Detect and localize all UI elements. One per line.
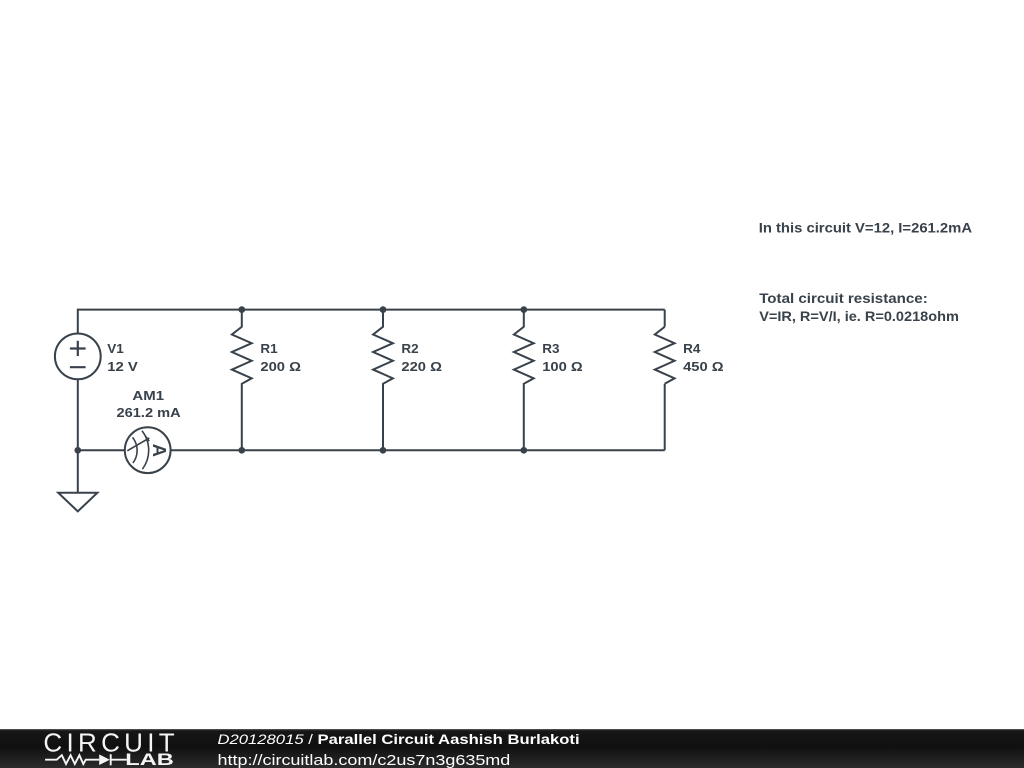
wire bottom rail right of ammeter <box>171 449 664 451</box>
node R1 top <box>238 306 245 313</box>
component labels <box>107 341 723 420</box>
resistor R1 <box>232 310 252 451</box>
svg-text:12 V: 12 V <box>107 360 138 374</box>
ammeter AM1 <box>125 427 171 473</box>
wire top rail <box>78 310 665 334</box>
svg-text:D20128015 / Parallel Circuit A: D20128015 / Parallel Circuit Aashish Bur… <box>218 732 580 747</box>
svg-text:220 Ω: 220 Ω <box>401 360 442 374</box>
svg-text:100 Ω: 100 Ω <box>542 360 583 374</box>
node V1 ground junction <box>74 447 81 454</box>
node R2 bottom <box>380 447 387 454</box>
svg-text:A: A <box>149 444 170 457</box>
svg-text:450 Ω: 450 Ω <box>683 360 724 374</box>
svg-text:LAB: LAB <box>125 751 174 768</box>
svg-text:V=IR, R=V/I, ie. R=0.0218ohm: V=IR, R=V/I, ie. R=0.0218ohm <box>759 309 959 325</box>
resistor R4 <box>655 327 675 384</box>
node R3 bottom <box>520 447 527 454</box>
svg-text:In this circuit V=12, I=261.2m: In this circuit V=12, I=261.2mA <box>759 221 973 237</box>
wire R4 top stub <box>664 310 666 327</box>
svg-text:R4: R4 <box>683 341 701 355</box>
resistor R2 <box>373 310 393 451</box>
svg-text:R3: R3 <box>542 341 559 355</box>
resistor R3 <box>514 310 534 451</box>
svg-text:AM1: AM1 <box>132 389 164 403</box>
node R1 bottom <box>238 447 245 454</box>
svg-text:http://circuitlab.com/c2us7n3g: http://circuitlab.com/c2us7n3g635md <box>218 751 511 768</box>
wire V1 bottom to ground junction <box>77 379 79 493</box>
svg-text:R1: R1 <box>260 341 277 355</box>
svg-text:R2: R2 <box>401 341 418 355</box>
voltage source V1 <box>55 334 101 380</box>
footer bar <box>0 729 1024 768</box>
wire R4 bottom stub <box>664 384 666 451</box>
ground <box>58 493 97 512</box>
wire bottom rail left of ammeter <box>78 449 124 451</box>
node junction dots <box>74 306 527 453</box>
svg-text:261.2 mA: 261.2 mA <box>117 406 181 420</box>
svg-text:V1: V1 <box>107 341 124 355</box>
node R2 top <box>380 306 387 313</box>
logo resistor-diode squiggle <box>45 754 127 765</box>
svg-text:200 Ω: 200 Ω <box>260 360 301 374</box>
node R3 top <box>520 306 527 313</box>
svg-text:Total circuit resistance:: Total circuit resistance: <box>759 291 928 306</box>
